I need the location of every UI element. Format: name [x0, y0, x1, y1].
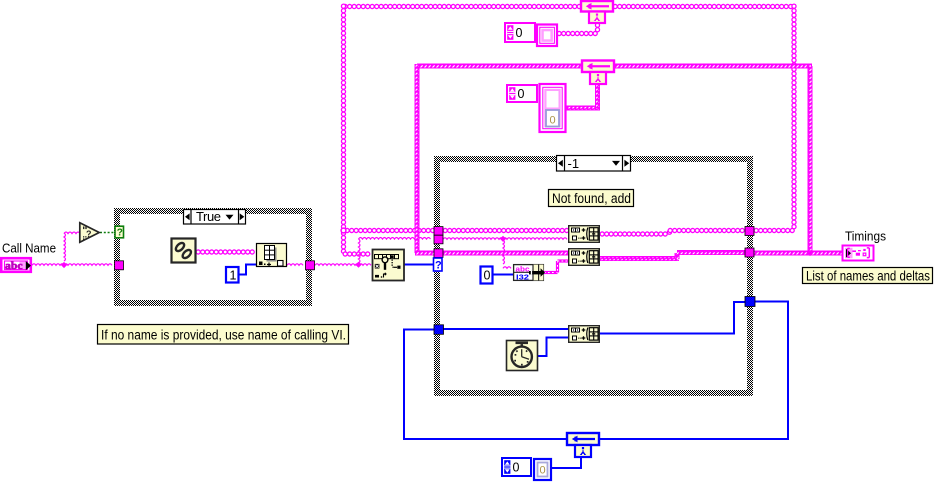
tunnel: cluster array out of case (right) — [745, 248, 754, 257]
constant: empty string array — [505, 23, 535, 42]
svg-text:?: ? — [117, 228, 123, 239]
node: Bundle (abc/I32) — [514, 265, 544, 281]
wire: i32-array shift loop — [599, 302, 788, 440]
wire: constant 1 to index array — [239, 265, 256, 275]
control: Call Name (abc) — [1, 258, 31, 272]
wire: string-array into right tunnel — [754, 228, 794, 232]
wire: build-array B output — [600, 256, 679, 261]
node: Search 1D Array — [373, 250, 405, 281]
wire: search result index — [404, 264, 434, 266]
wire: string-array down to Search input — [341, 231, 345, 253]
feedback node FB2 (cluster array) — [582, 61, 614, 73]
constant: empty cluster array — [507, 85, 537, 102]
wire: string-array top loop FB1 left — [343, 4, 581, 8]
free label: List of names and deltas — [803, 268, 933, 284]
wire: cluster-array to Timings — [753, 251, 843, 256]
tunnel: cluster array into case (T3) — [434, 249, 443, 258]
tunnel: left case string in — [115, 261, 124, 270]
node: Empty String/Path? — [80, 223, 99, 242]
wire: string-array right vertical — [792, 4, 796, 229]
wire: string branch up to Empty String? — [64, 233, 66, 261]
wire: empty string array constant to FB1 initializer — [557, 31, 597, 35]
svg-text:List of names and deltas: List of names and deltas — [806, 269, 930, 284]
wire: index array out to tunnel — [287, 264, 303, 266]
svg-text:0: 0 — [518, 87, 525, 101]
wire: cluster-array left vertical — [415, 64, 420, 253]
wire: string branch to tunnel T2 — [359, 239, 361, 263]
svg-text:Timings: Timings — [845, 229, 886, 244]
svg-text:0: 0 — [513, 461, 520, 475]
wire: string-array left vertical — [341, 4, 345, 229]
junction: string branch to tunnel — [355, 262, 361, 268]
wire: cluster-array FB2 output left — [417, 64, 582, 69]
svg-text:0: 0 — [540, 465, 546, 477]
case structure (big, "-1" case) — [434, 156, 753, 396]
tunnel: left case string out — [306, 261, 315, 270]
node: Build Array B (clusters) — [569, 249, 600, 266]
svg-text:True: True — [196, 209, 221, 224]
terminal: case selector ? (green) — [115, 226, 124, 238]
wire: cluster-array right vertical — [808, 66, 813, 253]
feedback node FB1 (string array) — [581, 1, 613, 12]
tunnel: i32 array into case (blue) — [434, 325, 444, 335]
svg-text:Call Name: Call Name — [2, 241, 56, 256]
svg-text:0: 0 — [516, 26, 523, 40]
node: Index Array — [257, 244, 287, 267]
constant: 0 (blue) — [481, 267, 493, 284]
feedback node FB3 (i32 array, blue) — [567, 433, 599, 445]
svg-text:If no name is provided, use na: If no name is provided, use name of call… — [101, 328, 346, 343]
wire: Call Name string — [32, 264, 112, 266]
indicator: Timings — [843, 246, 874, 261]
wire: string inside case — [443, 238, 567, 240]
tunnel: string into case (T2) — [434, 235, 443, 244]
svg-text:?: ? — [435, 260, 442, 272]
wire: cluster-array FB2 right — [614, 64, 812, 69]
junction: string array branch — [341, 228, 346, 233]
wire: build-array A output — [600, 232, 667, 236]
tunnel: string array into case (T1) — [434, 227, 443, 236]
wire: empty cluster array constant to FB2 initializer — [566, 106, 600, 111]
selector label "True" — [184, 210, 246, 225]
svg-text:0: 0 — [550, 115, 556, 127]
wire: string-array top loop FB1 right — [613, 4, 793, 8]
tunnel: string array out of case (right) — [745, 227, 754, 236]
svg-text:-1: -1 — [568, 156, 580, 171]
svg-text:abc: abc — [5, 260, 23, 272]
wire: string branch down to bundle — [503, 240, 505, 264]
node: Build Array A (strings) — [569, 226, 600, 243]
wire: string-array junction to left tunnel T1 — [345, 228, 435, 232]
wire: left tunnel to build-array C — [443, 328, 568, 330]
wire: clock to build-array C — [538, 338, 568, 357]
junction: cluster array to Timings — [807, 250, 813, 256]
wire: cluster-array inside case — [443, 251, 568, 256]
junction: string branch to bundle — [500, 236, 506, 242]
free label: If no name is provided — [98, 325, 349, 345]
node: Call Chain — [172, 239, 196, 263]
node: Tick Count (ms) clock — [507, 341, 538, 371]
node: Build Array C (times) — [569, 326, 600, 343]
free label: Not found, add — [549, 190, 634, 207]
terminal: case selector ? (blue) — [434, 258, 443, 271]
svg-text:0: 0 — [484, 269, 491, 283]
svg-text:I32: I32 — [516, 272, 529, 281]
wire: build-array C output — [600, 302, 745, 334]
wire: numeric array constant to FB3 initializer — [552, 457, 581, 468]
tunnel: i32 array out of case (blue) — [745, 297, 755, 307]
svg-text:Not found, add: Not found, add — [552, 191, 631, 206]
selector label "-1" — [557, 156, 631, 172]
wire: call chain to index array — [196, 250, 254, 254]
wire: string to search node — [315, 264, 371, 266]
wire: constant 0 to bundle — [492, 274, 513, 276]
svg-text:1: 1 — [230, 269, 237, 283]
svg-text:?: ? — [86, 229, 92, 239]
constant: i32 array (blue) — [502, 458, 531, 476]
wire: cluster bundle output — [544, 271, 558, 274]
wire: boolean to case selector — [100, 232, 116, 234]
case structure (left, "True" case) — [114, 208, 312, 306]
junction: Call Name branch — [61, 262, 67, 268]
constant: 1 (blue) — [226, 267, 239, 283]
wire: string-array inside case to build-array A — [443, 228, 569, 232]
